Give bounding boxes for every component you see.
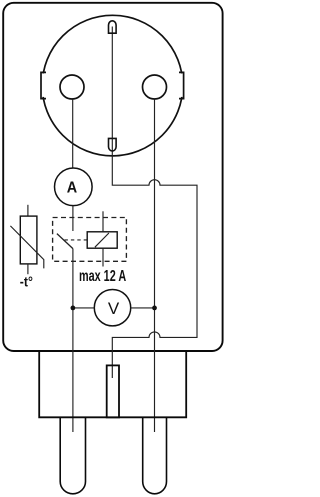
right socket hole — [143, 75, 167, 99]
left side notch — [39, 72, 47, 98]
wire: voltmeter left connection — [73, 307, 94, 309]
wire: right hole down to right pin — [154, 99, 156, 432]
wire: left hole to ammeter — [72, 99, 74, 168]
wire: ammeter to switch contact — [72, 206, 74, 231]
svg-text:max 12 A: max 12 A — [79, 267, 126, 285]
svg-text:A: A — [67, 179, 78, 197]
junction dot left — [71, 306, 76, 311]
left socket hole — [60, 75, 84, 99]
relay coil top lead — [102, 211, 104, 232]
plug base — [39, 351, 186, 417]
wire: voltmeter right connection — [131, 307, 155, 309]
top ground clip slot — [109, 21, 117, 33]
ammeter A — [55, 168, 93, 206]
wire: switch to left pin — [72, 249, 74, 432]
svg-text:-t°: -t° — [20, 274, 33, 290]
junction dot right — [152, 306, 157, 311]
switch blade — [57, 234, 73, 249]
ground wire: slots to right rail to earth pin (with two hops) — [112, 27, 197, 379]
svg-text:V: V — [108, 299, 120, 318]
right side notch — [179, 72, 187, 98]
mechanical link (dashed) — [65, 239, 88, 241]
relay module dashed box — [53, 218, 127, 262]
socket face circle — [42, 15, 183, 156]
relay coil bottom lead — [102, 248, 104, 266]
earth pin contact — [107, 365, 119, 417]
left pin — [60, 417, 85, 493]
voltmeter V — [94, 290, 130, 326]
relay K coil — [87, 232, 117, 248]
bottom ground clip slot — [109, 138, 117, 151]
right pin — [143, 417, 167, 494]
thermistor — [10, 205, 43, 274]
plug body — [3, 3, 222, 351]
